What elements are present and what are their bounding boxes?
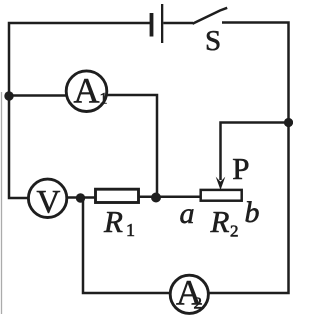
svg-text:2: 2	[194, 294, 203, 313]
wire: A1 right, corner, down to node at R1 right	[107, 95, 157, 198]
resistor R1	[96, 189, 139, 202]
wiper arrowhead P	[216, 177, 226, 190]
battery cell: positive plate (long thin)	[161, 4, 163, 43]
node: junction V / R1 / down-branch	[76, 193, 85, 202]
wire: down branch from V/R1 node to bottom-left corner to A2	[83, 198, 170, 293]
svg-text:b: b	[245, 196, 260, 229]
wire: battery negative to top-left corner, left rail down to voltmeter	[9, 23, 150, 198]
wire: node to ammeter A1	[9, 94, 67, 97]
svg-text:A: A	[74, 71, 100, 111]
scan artifact left edge	[1, 92, 3, 314]
label R2	[210, 204, 239, 241]
svg-text:V: V	[37, 185, 61, 221]
battery cell: negative plate (short thick)	[150, 13, 154, 37]
rheostat R2	[201, 190, 242, 201]
node: junction left rail / A1 branch	[4, 91, 13, 100]
node: junction right rail / wiper lead	[284, 118, 293, 127]
node: junction R1 right / A1 branch	[151, 193, 161, 203]
label R1	[103, 204, 135, 240]
ammeter A1	[66, 71, 107, 112]
wire: wiper lead from right rail node down to arrow	[221, 123, 289, 181]
svg-text:1: 1	[126, 220, 135, 240]
svg-text:R: R	[210, 204, 230, 239]
wire: R1 right to rheostat R2 left	[139, 196, 201, 199]
switch S blade	[193, 8, 228, 24]
wire: A2 right, bottom-right corner, right rail up to switch contact	[209, 23, 289, 294]
voltmeter V	[28, 179, 66, 220]
ammeter A2	[170, 273, 208, 314]
svg-text:a: a	[180, 197, 195, 230]
wire: V right to R1 left through node	[68, 196, 96, 199]
svg-text:1: 1	[100, 91, 108, 108]
svg-text:R: R	[103, 204, 123, 239]
wire: battery positive to switch pivot	[163, 22, 193, 25]
svg-text:S: S	[205, 25, 221, 57]
svg-text:P: P	[232, 151, 249, 186]
svg-text:2: 2	[230, 222, 239, 241]
